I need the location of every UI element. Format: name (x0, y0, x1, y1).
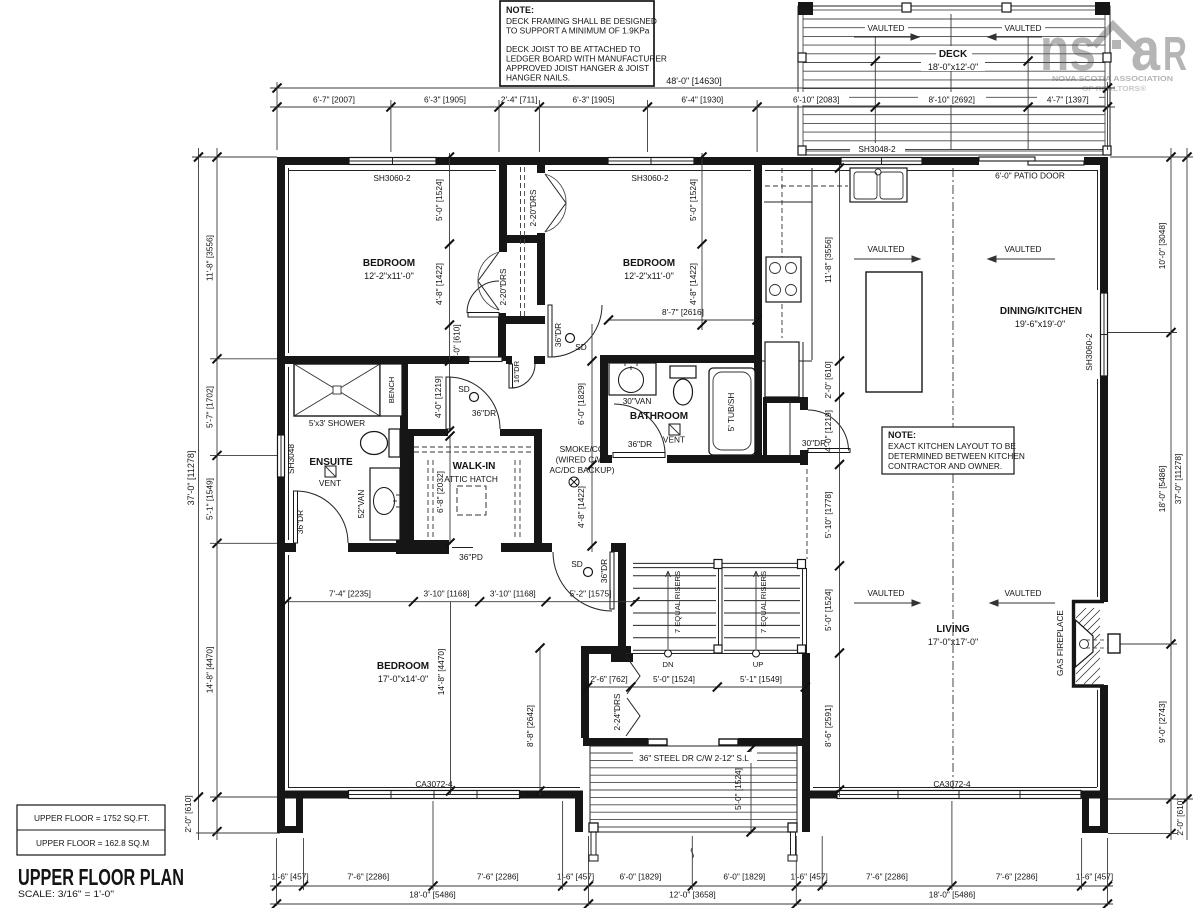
svg-text:SD: SD (571, 559, 583, 569)
svg-text:LEDGER BOARD WITH MANUFACTURER: LEDGER BOARD WITH MANUFACTURER (506, 54, 667, 64)
bottom-right corner step (1100, 797, 1108, 833)
svg-text:SH3060-2: SH3060-2 (1084, 333, 1094, 371)
walk-in shelves dashed (414, 447, 534, 540)
svg-text:5'-2" [1575]: 5'-2" [1575] (570, 589, 612, 599)
front door with sidelights (633, 739, 757, 763)
stair treads down run (633, 576, 716, 650)
stair treads up run (724, 576, 800, 650)
walk-in north wall (406, 429, 448, 436)
svg-text:SH3048: SH3048 (286, 444, 296, 474)
svg-text:12'-0" [3658]: 12'-0" [3658] (669, 890, 716, 900)
svg-text:5'-10" [1778]: 5'-10" [1778] (823, 492, 833, 539)
door bedroom3 (553, 552, 614, 611)
bath vent (669, 424, 680, 435)
ensuite fixtures (286, 364, 402, 540)
walk-in west wall (406, 429, 414, 543)
svg-text:CA3072-4: CA3072-4 (415, 779, 453, 789)
bathroom fixtures (609, 363, 755, 455)
extension lines top (276, 82, 278, 150)
right dimension lines (1108, 148, 1193, 840)
walk-in dim 6'-8" (435, 432, 455, 548)
kitchen fixtures (762, 168, 922, 397)
svg-text:LIVING: LIVING (936, 624, 970, 635)
svg-text:18'-0"x12'-0": 18'-0"x12'-0" (928, 62, 978, 72)
entry closet bifold doors 2-24DRS (612, 656, 640, 736)
svg-text:NOVA SCOTIA ASSOCIATION: NOVA SCOTIA ASSOCIATION (1052, 74, 1173, 83)
svg-text:BENCH: BENCH (387, 377, 396, 404)
linen closet south wall (506, 356, 512, 364)
svg-text:18'-0" [5486]: 18'-0" [5486] (1157, 466, 1167, 513)
smoke/co note (549, 444, 614, 487)
stair center railing (718, 568, 720, 653)
ensuite toilet (389, 429, 400, 457)
svg-text:VAULTED: VAULTED (867, 23, 904, 33)
door walk-in (446, 377, 500, 429)
svg-text:DINING/KITCHEN: DINING/KITCHEN (1000, 306, 1082, 317)
svg-text:UPPER FLOOR = 162.8 SQ.M: UPPER FLOOR = 162.8 SQ.M (36, 838, 149, 848)
svg-text:5'-0" [1524]: 5'-0" [1524] (653, 674, 695, 684)
svg-text:ns: ns (1040, 16, 1096, 83)
ensuite vent (325, 466, 336, 477)
svg-text:17'-0"x14'-0": 17'-0"x14'-0" (378, 674, 428, 684)
svg-text:VAULTED: VAULTED (867, 588, 904, 598)
svg-text:36"DR: 36"DR (553, 323, 563, 347)
svg-text:6'-4" [1930]: 6'-4" [1930] (681, 95, 723, 105)
svg-text:8'-7" [2616]: 8'-7" [2616] (662, 307, 704, 317)
svg-text:4'-0" [1219]: 4'-0" [1219] (823, 410, 833, 452)
svg-text:VAULTED: VAULTED (1004, 588, 1041, 598)
window CA3072-4 bedroom3 (349, 791, 520, 799)
svg-text:6'-0" [1829]: 6'-0" [1829] (576, 383, 586, 425)
svg-text:4'-8" [1422]: 4'-8" [1422] (434, 263, 444, 305)
window SH3048-2 kitchen (841, 158, 922, 165)
svg-text:VAULTED: VAULTED (867, 244, 904, 254)
svg-text:8'-6" [2591]: 8'-6" [2591] (823, 705, 833, 747)
bedroom2 horizontal dim (604, 307, 762, 325)
svg-text:SH3060-2: SH3060-2 (631, 173, 669, 183)
svg-text:DECK: DECK (939, 49, 968, 60)
svg-text:BEDROOM: BEDROOM (363, 258, 415, 269)
window SH3060-2 dining right wall (1101, 293, 1108, 376)
svg-text:SD: SD (575, 342, 587, 352)
svg-text:6'-3" [1905]: 6'-3" [1905] (424, 95, 466, 105)
stairwell bottom edge (626, 653, 802, 655)
svg-text:6'-0" [1829]: 6'-0" [1829] (723, 872, 765, 882)
porch west step wall (575, 798, 583, 832)
kitchen dim 11'-8" / 2'-0" (823, 164, 844, 798)
svg-text:6'-3" [1905]: 6'-3" [1905] (573, 95, 615, 105)
svg-text:6'-8" [2032]: 6'-8" [2032] (435, 471, 445, 513)
svg-text:NOTE:: NOTE: (506, 5, 534, 15)
window SH3048 ensuite left wall (278, 435, 285, 477)
bedroom1 vertical dim (433, 153, 462, 436)
svg-text:7'-6" [2286]: 7'-6" [2286] (347, 872, 389, 882)
svg-text:DN: DN (663, 660, 674, 669)
svg-text:4'-8" [1422]: 4'-8" [1422] (688, 263, 698, 305)
interior wall face lines (288, 168, 1098, 788)
svg-text:16"DR: 16"DR (512, 360, 521, 383)
svg-text:5'-0" [1524]: 5'-0" [1524] (688, 179, 698, 221)
svg-text:14'-8" [4470]: 14'-8" [4470] (205, 647, 215, 694)
door bedroom2 (548, 305, 602, 357)
svg-text:11'-8" [3556]: 11'-8" [3556] (823, 237, 833, 283)
gas fireplace (1055, 602, 1120, 687)
svg-text:18'-0" [5486]: 18'-0" [5486] (409, 890, 456, 900)
svg-text:10'-0" [3048]: 10'-0" [3048] (1157, 223, 1167, 270)
svg-text:3'-10" [1168]: 3'-10" [1168] (490, 589, 536, 599)
deck posts (798, 2, 813, 15)
svg-text:8'-8" [2642]: 8'-8" [2642] (525, 705, 535, 747)
svg-text:BATHROOM: BATHROOM (630, 411, 688, 422)
door bedroom1 (467, 281, 502, 362)
segment dim line (270, 106, 1115, 108)
door ensuite (294, 491, 349, 543)
left wall (277, 157, 285, 435)
svg-text:2'-0" [610]: 2'-0" [610] (1175, 798, 1185, 835)
stairwell west wall (618, 543, 626, 662)
counter edge (811, 168, 813, 360)
svg-text:17'-0"x17'-0": 17'-0"x17'-0" (928, 637, 978, 647)
svg-text:12'-2"x11'-0": 12'-2"x11'-0" (364, 271, 414, 281)
wall bedroom2 south / bathroom north (600, 355, 762, 363)
svg-text:4'-7" [1397]: 4'-7" [1397] (1047, 95, 1089, 105)
bedroom3 dim line (282, 589, 640, 607)
bottom-left corner step (277, 797, 285, 833)
area table (17, 805, 165, 855)
svg-text:4'-8" [1422]: 4'-8" [1422] (576, 486, 586, 528)
svg-text:36"DR: 36"DR (628, 439, 652, 449)
svg-text:5'-1" [1549]: 5'-1" [1549] (205, 478, 215, 520)
svg-text:2'-0" [610]: 2'-0" [610] (183, 795, 193, 832)
svg-text:7'-4" [2235]: 7'-4" [2235] (329, 589, 371, 599)
pantry closet by kitchen (763, 397, 806, 403)
tub (709, 368, 755, 455)
right wall (1100, 157, 1108, 293)
smoke detectors (458, 334, 592, 577)
hall dim 6'-0 and 4'-8 (576, 324, 597, 552)
svg-text:ATTIC HATCH: ATTIC HATCH (444, 474, 498, 484)
stairs (626, 469, 807, 669)
wall bedroom1 east / closet strip west (499, 165, 507, 252)
svg-text:NOTE:: NOTE: (888, 430, 916, 440)
svg-text:DETERMINED BETWEEN KITCHEN: DETERMINED BETWEEN KITCHEN (888, 451, 1025, 461)
island (866, 272, 922, 392)
window CA3072-4 living (837, 791, 1081, 799)
bathroom south wall (600, 455, 612, 463)
svg-text:UP: UP (753, 660, 764, 669)
svg-text:5'-0" [1524]: 5'-0" [1524] (823, 589, 833, 631)
svg-text:5' TUB/SH: 5' TUB/SH (726, 393, 736, 432)
extension lines left (192, 156, 277, 158)
bifold bedroom1 closet (478, 252, 499, 310)
svg-text:19'-6"x19'-0": 19'-6"x19'-0" (1015, 319, 1065, 329)
ceiling break dash line (952, 168, 954, 790)
svg-text:7 EQUAL RISERS: 7 EQUAL RISERS (759, 571, 768, 633)
svg-text:1'-6" [457]: 1'-6" [457] (271, 872, 308, 882)
svg-text:HANGER NAILS.: HANGER NAILS. (506, 73, 570, 83)
extension lines bottom (276, 838, 278, 906)
left dimension lines (183, 148, 280, 840)
svg-text:DECK FRAMING SHALL BE DESIGNED: DECK FRAMING SHALL BE DESIGNED (506, 16, 657, 26)
deck boards (803, 19, 1105, 150)
svg-text:CA3072-4: CA3072-4 (933, 779, 971, 789)
kitchen sink (850, 168, 907, 202)
kitchen west wall (bedroom2 east) (754, 165, 762, 363)
svg-text:14'-8" [4470]: 14'-8" [4470] (436, 649, 446, 696)
svg-text:6'-10" [2083]: 6'-10" [2083] (793, 95, 840, 105)
top dimension lines (270, 76, 1115, 152)
closet divider walls (499, 235, 545, 243)
svg-text:APPROVED JOIST HANGER & JOIST: APPROVED JOIST HANGER & JOIST (506, 63, 649, 73)
svg-text:9'-0" [2743]: 9'-0" [2743] (1157, 701, 1167, 743)
top wall segments (277, 157, 349, 165)
svg-text:37'-0" [11278]: 37'-0" [11278] (186, 451, 196, 506)
svg-text:18'-0" [5486]: 18'-0" [5486] (929, 890, 976, 900)
bottom wall left part (277, 791, 349, 799)
wall bedroom2 west (537, 165, 545, 173)
svg-text:7'-6" [2286]: 7'-6" [2286] (996, 872, 1038, 882)
svg-text:(WIRED C/W: (WIRED C/W (556, 455, 605, 465)
svg-text:WALK-IN: WALK-IN (453, 461, 496, 472)
extension lines right (1110, 156, 1193, 158)
svg-text:8'-10" [2692]: 8'-10" [2692] (928, 95, 975, 105)
svg-text:2-24"DRS: 2-24"DRS (612, 693, 622, 731)
svg-text:6'-0" PATIO DOOR: 6'-0" PATIO DOOR (995, 171, 1065, 181)
svg-text:SCALE: 3/16" = 1'-0": SCALE: 3/16" = 1'-0" (18, 889, 114, 899)
svg-text:SH3060-2: SH3060-2 (373, 173, 411, 183)
svg-text:7'-6" [2286]: 7'-6" [2286] (477, 872, 519, 882)
svg-text:2-20"DRS: 2-20"DRS (528, 189, 538, 227)
svg-text:5'-0" [1524]: 5'-0" [1524] (434, 179, 444, 221)
deck (798, 2, 1111, 155)
fridge (765, 342, 799, 397)
svg-text:36"DR: 36"DR (599, 559, 609, 583)
bottom dimension lines (270, 801, 1113, 908)
door bathroom (613, 404, 665, 458)
svg-text:SD: SD (458, 384, 470, 394)
title (18, 864, 184, 899)
bathroom west wall (600, 363, 608, 455)
wall bedroom1 south (285, 356, 469, 364)
svg-text:BEDROOM: BEDROOM (377, 661, 429, 672)
note box deck framing (500, 1, 667, 86)
svg-text:52"VAN: 52"VAN (356, 490, 366, 519)
entry dim line (583, 674, 810, 692)
porch east step wall (802, 798, 810, 832)
svg-text:36"PD: 36"PD (459, 552, 483, 562)
window SH3060-2 bedroom2 (608, 158, 694, 165)
svg-text:5'-0" [1524]: 5'-0" [1524] (733, 768, 743, 810)
stair top railing (633, 562, 802, 564)
svg-text:5'x3' SHOWER: 5'x3' SHOWER (309, 418, 365, 428)
bedroom3 vertical dims (436, 602, 545, 796)
overall 48 ft dim line (270, 87, 1115, 89)
front porch (589, 745, 797, 862)
shower (294, 364, 380, 416)
svg-text:37'-0" [11278]: 37'-0" [11278] (1173, 454, 1183, 505)
svg-text:SMOKE/CO: SMOKE/CO (560, 444, 605, 454)
bottom wall right part (810, 791, 837, 799)
svg-text:TO SUPPORT A MINIMUM OF 1.9KPa: TO SUPPORT A MINIMUM OF 1.9KPa (506, 26, 650, 36)
svg-text:36"DR: 36"DR (295, 510, 305, 534)
svg-text:11'-8" [3556]: 11'-8" [3556] (205, 235, 215, 281)
living west wall (802, 653, 810, 798)
kitchen note box (882, 427, 1025, 474)
svg-text:VAULTED: VAULTED (1004, 244, 1041, 254)
newel circles (665, 650, 672, 657)
bedroom2 vertical dim (688, 153, 707, 331)
svg-text:DECK JOIST TO BE ATTACHED TO: DECK JOIST TO BE ATTACHED TO (506, 44, 641, 54)
living side railing (806, 469, 808, 559)
NSAR logo (1040, 16, 1187, 93)
svg-text:48'-0" [14630]: 48'-0" [14630] (666, 76, 721, 86)
ensuite vanity (370, 468, 400, 540)
svg-text:EXACT KITCHEN LAYOUT TO BE: EXACT KITCHEN LAYOUT TO BE (888, 441, 1016, 451)
svg-text:SH3048-2: SH3048-2 (858, 144, 896, 154)
svg-text:6'-0" [1829]: 6'-0" [1829] (619, 872, 661, 882)
svg-text:6'-7" [2007]: 6'-7" [2007] (313, 95, 355, 105)
svg-text:VENT: VENT (663, 435, 685, 445)
entry closet walls (581, 646, 589, 738)
svg-text:BEDROOM: BEDROOM (623, 258, 675, 269)
svg-text:CONTRACTOR AND OWNER.: CONTRACTOR AND OWNER. (888, 461, 1002, 471)
deck joist lines (874, 36, 876, 150)
svg-text:2'-0" [610]: 2'-0" [610] (452, 324, 462, 361)
svg-text:VAULTED: VAULTED (1004, 23, 1041, 33)
svg-text:2-20"DRS: 2-20"DRS (498, 268, 508, 306)
svg-text:AC/DC BACKUP): AC/DC BACKUP) (549, 465, 614, 475)
door pantry 30in (808, 410, 850, 453)
svg-text:VENT: VENT (319, 478, 341, 488)
bathroom east wall (754, 363, 762, 463)
svg-text:12'-2"x11'-0": 12'-2"x11'-0" (624, 271, 674, 281)
svg-text:36"DR: 36"DR (472, 408, 496, 418)
svg-text:7'-6" [2286]: 7'-6" [2286] (866, 872, 908, 882)
entry south wall (583, 738, 648, 746)
attic hatch (444, 461, 498, 515)
svg-text:GAS FIREPLACE: GAS FIREPLACE (1055, 610, 1065, 676)
svg-text:2'-6" [762]: 2'-6" [762] (590, 674, 627, 684)
stove (766, 257, 801, 302)
svg-text:7 EQUAL RISERS: 7 EQUAL RISERS (673, 571, 682, 633)
closet rod dashed (520, 167, 522, 316)
svg-text:UPPER FLOOR PLAN: UPPER FLOOR PLAN (18, 864, 184, 890)
svg-text:5'-1" [1549]: 5'-1" [1549] (740, 674, 782, 684)
svg-text:UPPER FLOOR = 1752 SQ.FT.: UPPER FLOOR = 1752 SQ.FT. (34, 813, 150, 823)
svg-text:2'-4" [711]: 2'-4" [711] (501, 95, 538, 105)
walk-in east wall (534, 429, 542, 552)
svg-text:3'-10" [1168]: 3'-10" [1168] (424, 589, 470, 599)
svg-text:4'-0" [1219]: 4'-0" [1219] (433, 376, 443, 418)
bifold bedroom2 closet (545, 174, 566, 232)
wall ensuite east (400, 356, 408, 543)
living dims 5'-0 8'-6 (823, 561, 844, 794)
porch dim 5'-0" (750, 748, 752, 834)
svg-text:30"VAN: 30"VAN (623, 396, 652, 406)
svg-text:2'-0" [610]: 2'-0" [610] (823, 361, 833, 398)
svg-text:5'-7" [1702]: 5'-7" [1702] (205, 386, 215, 428)
patio door sliding (979, 157, 1084, 165)
bath toilet (670, 366, 696, 378)
door linen 16in (509, 364, 535, 388)
hall south wall (bedroom3 north) (277, 543, 296, 552)
bath vanity (609, 363, 656, 395)
deck labels (865, 22, 908, 32)
window SH3060-2 bedroom1 (349, 158, 436, 165)
svg-text:36" STEEL DR C/W 2-12" S.L: 36" STEEL DR C/W 2-12" S.L (639, 753, 749, 763)
